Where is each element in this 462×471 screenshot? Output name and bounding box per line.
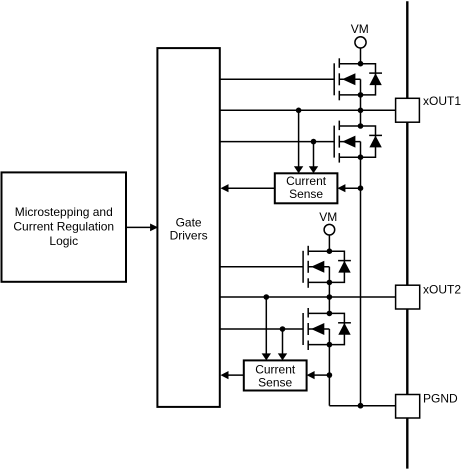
svg-text:VM: VM	[319, 210, 337, 224]
svg-text:xOUT1: xOUT1	[423, 94, 461, 108]
svg-text:PGND: PGND	[423, 392, 458, 406]
svg-text:Logic: Logic	[49, 234, 78, 248]
svg-text:Sense: Sense	[289, 187, 323, 201]
svg-text:Sense: Sense	[258, 376, 292, 390]
svg-text:VM: VM	[351, 22, 369, 36]
svg-text:Microstepping and: Microstepping and	[15, 205, 113, 219]
svg-text:Gate: Gate	[176, 215, 202, 229]
svg-text:Current Regulation: Current Regulation	[13, 220, 114, 234]
svg-text:Drivers: Drivers	[170, 228, 208, 242]
svg-text:Current: Current	[255, 363, 296, 377]
svg-text:Current: Current	[286, 174, 327, 188]
svg-text:xOUT2: xOUT2	[423, 283, 461, 297]
